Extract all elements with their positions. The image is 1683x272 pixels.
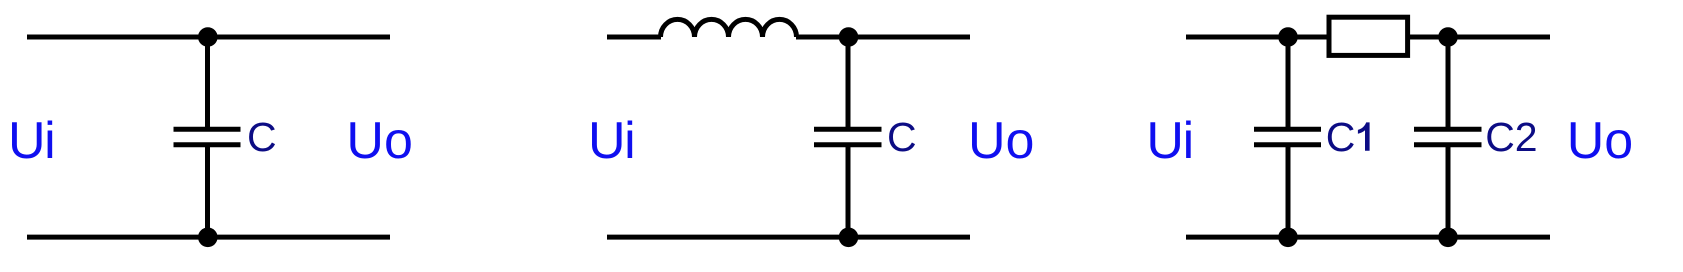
svg-text:Ui: Ui xyxy=(588,112,636,170)
svg-text:Uo: Uo xyxy=(346,112,412,170)
svg-text:C: C xyxy=(887,114,917,160)
svg-text:Ui: Ui xyxy=(8,112,56,170)
svg-text:Ui: Ui xyxy=(1146,112,1194,170)
svg-text:C2: C2 xyxy=(1485,114,1537,160)
svg-text:C: C xyxy=(1326,114,1356,160)
svg-text:C: C xyxy=(247,114,277,160)
svg-text:Uo: Uo xyxy=(968,112,1034,170)
svg-text:Uo: Uo xyxy=(1567,112,1633,170)
